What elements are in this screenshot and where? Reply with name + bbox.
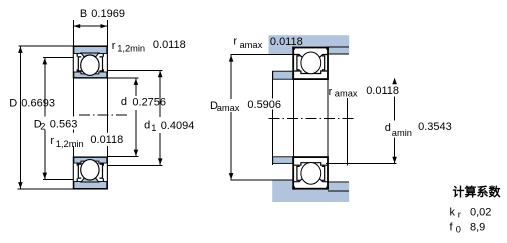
svg-text:8,9: 8,9 — [470, 222, 485, 234]
svg-text:1: 1 — [151, 123, 156, 133]
housing left lip — [269, 47, 293, 55]
svg-text:d: d — [144, 120, 150, 132]
inner ring blue band mirror — [74, 157, 107, 163]
svg-text:amax: amax — [335, 89, 358, 99]
Damax dimension line — [230, 55, 232, 99]
svg-text:d: d — [121, 96, 127, 108]
d1 extension line bottom — [107, 164, 162, 166]
centerline axis — [79, 114, 127, 116]
svg-text:0.4094: 0.4094 — [161, 120, 195, 132]
svg-text:amin: amin — [392, 128, 412, 138]
left shield bracket mirror — [78, 164, 81, 178]
svg-text:0.0118: 0.0118 — [270, 36, 303, 48]
d extension line bottom — [107, 156, 138, 158]
inner raceway recess outline mirror — [294, 163, 328, 166]
left shield bracket — [78, 57, 81, 71]
outer ring section body — [73, 46, 107, 78]
housing bore line right of bearing — [328, 46, 349, 48]
bearing bottom section left view (mirror) — [73, 157, 107, 189]
svg-text:0.1969: 0.1969 — [91, 8, 125, 20]
inner raceway recess mirror — [81, 161, 99, 163]
D2 extension line top — [43, 57, 73, 59]
left face line through bore — [72, 78, 74, 157]
outer raceway groove outline mirror — [294, 179, 328, 184]
D bottom arrow — [18, 182, 23, 188]
outer raceway groove outline — [294, 52, 328, 57]
svg-text:r: r — [112, 40, 116, 52]
D2 extension line bottom — [43, 179, 73, 181]
right face line through bore — [106, 78, 108, 157]
svg-text:r: r — [329, 86, 333, 98]
shaft right step line — [328, 190, 349, 192]
right shield bracket — [322, 56, 325, 70]
svg-text:0.563: 0.563 — [50, 118, 78, 130]
svg-text:amax: amax — [240, 40, 263, 50]
d1 dimension line — [159, 70, 161, 117]
centerline axis right — [269, 117, 356, 119]
ball — [301, 52, 321, 74]
svg-text:0.5906: 0.5906 — [247, 99, 281, 111]
D extension line top — [18, 45, 73, 47]
right shield bracket mirror — [322, 166, 325, 180]
D2 bottom arrow — [43, 173, 48, 179]
shaft shoulder strip top — [273, 71, 293, 79]
D2 label — [33, 117, 78, 132]
B extension line right — [106, 20, 108, 46]
svg-text:0.6693: 0.6693 — [21, 97, 55, 109]
B left arrow — [74, 24, 80, 28]
svg-text:d: d — [385, 122, 391, 134]
bearing section body mirror — [293, 157, 328, 189]
d1 top arrow — [158, 71, 163, 77]
bearing top section right view — [292, 47, 329, 80]
inner raceway recess outline — [294, 71, 328, 74]
svg-text:0.3543: 0.3543 — [418, 121, 452, 133]
outer ring section body mirror — [73, 157, 107, 189]
svg-text:r: r — [50, 135, 54, 147]
svg-text:1,2min: 1,2min — [56, 139, 84, 149]
svg-text:1,2min: 1,2min — [117, 44, 145, 54]
svg-text:0,02: 0,02 — [470, 207, 491, 219]
svg-text:0.0118: 0.0118 — [90, 134, 123, 146]
shaft shoulder surface line bottom left — [230, 179, 293, 181]
svg-text:B: B — [80, 8, 87, 20]
ball mirror — [81, 160, 99, 180]
D dimension line — [19, 46, 21, 189]
Damax top arrow — [229, 55, 234, 61]
housing left lip bottom line / Damax top extension — [230, 54, 292, 56]
d top arrow — [134, 79, 139, 85]
shaft blue mass — [272, 181, 349, 203]
shield recess stubs — [77, 54, 103, 73]
d bottom arrow — [134, 150, 139, 156]
housing right lip bottom line — [328, 53, 349, 55]
svg-text:0.0118: 0.0118 — [153, 39, 186, 51]
left shield bracket — [297, 56, 300, 70]
left shield bracket mirror — [297, 166, 300, 180]
svg-text:0.0118: 0.0118 — [366, 85, 399, 97]
svg-text:计算系数: 计算系数 — [453, 184, 502, 199]
housing band top — [269, 35, 350, 46]
ball — [81, 55, 99, 75]
svg-text:0.2756: 0.2756 — [132, 96, 166, 108]
d1 bottom arrow — [158, 158, 163, 164]
right face lines through bore — [292, 80, 294, 156]
damin dimension line — [394, 97, 396, 121]
D extension line bottom — [18, 188, 74, 190]
r12min bottom label — [49, 133, 124, 149]
bearing top section left view — [73, 46, 107, 78]
corner marks mirror — [292, 186, 295, 189]
bearing bottom section right view — [292, 157, 329, 190]
svg-text:r: r — [458, 210, 461, 220]
outer raceway tongue — [81, 53, 99, 58]
B right arrow — [101, 24, 107, 28]
shaft right lip top line — [328, 181, 349, 183]
shield recess stubs mirror — [77, 163, 103, 182]
d1 extension line top — [107, 69, 162, 71]
inner raceway recess — [81, 72, 99, 74]
housing right lip — [328, 48, 349, 54]
D top arrow — [18, 47, 23, 53]
svg-text:amax: amax — [217, 103, 240, 113]
d dimension line — [135, 78, 137, 96]
B dimension line — [73, 25, 107, 27]
inner ring blue band — [74, 72, 107, 78]
svg-text:2: 2 — [40, 122, 45, 132]
right shield bracket mirror — [100, 164, 103, 178]
damin top arrow — [392, 78, 397, 84]
right shield bracket — [100, 57, 103, 71]
outer ring blue band mirror — [74, 182, 107, 189]
B extension line left — [72, 20, 74, 46]
D2 dimension line — [44, 58, 46, 180]
outer ring blue band — [74, 47, 107, 54]
corner marks — [292, 47, 295, 50]
D2 top arrow — [43, 58, 48, 64]
svg-text:r: r — [233, 36, 237, 48]
damin extension line — [326, 163, 396, 165]
svg-text:0: 0 — [456, 225, 461, 235]
ball mirror — [301, 163, 321, 185]
svg-text:k: k — [450, 207, 456, 219]
ramax leader line — [347, 98, 349, 165]
svg-text:D: D — [9, 97, 17, 109]
d extension line top — [107, 77, 138, 79]
damin bottom arrow — [392, 157, 397, 163]
shaft shoulder strip bottom — [273, 157, 293, 164]
Damax bottom arrow — [229, 173, 234, 179]
shoulder face edge line — [272, 71, 274, 99]
outer raceway tongue mirror — [81, 177, 99, 182]
